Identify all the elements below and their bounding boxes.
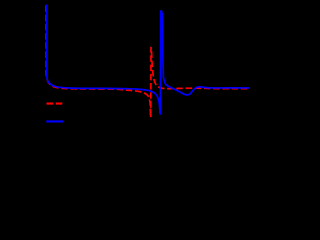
blue solid curve (47, 5, 249, 114)
legend: blue solid sample (46, 120, 63, 122)
legend: red dashed sample (47, 103, 63, 105)
red dashed curve (46, 6, 249, 118)
chart canvas (0, 0, 249, 159)
